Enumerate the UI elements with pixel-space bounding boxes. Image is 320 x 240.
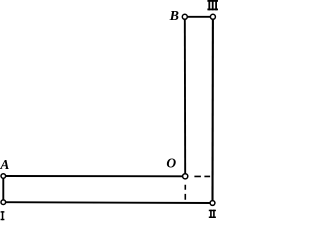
- svg-text:B: B: [169, 9, 179, 24]
- svg-text:A: A: [0, 157, 9, 172]
- svg-text:O: O: [166, 155, 176, 170]
